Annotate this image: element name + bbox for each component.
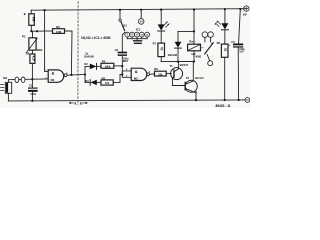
resistor R1 (asterisk value) [24, 10, 36, 31]
relay coil Re1 [188, 40, 202, 62]
svg-text:+: + [229, 43, 231, 47]
svg-text:C2: C2 [115, 48, 119, 52]
LED D4 [214, 9, 228, 30]
junction dot C2/R4 [121, 65, 123, 67]
junction dot N2 node [121, 73, 123, 75]
svg-text:MKT: MKT [123, 60, 129, 63]
capacitor C1 [28, 79, 38, 101]
wire collector line [161, 61, 194, 63]
ground symbol IC1 [134, 41, 142, 44]
node marker b arrow [80, 101, 87, 105]
svg-text:R5: R5 [102, 76, 106, 80]
svg-text:100k: 100k [105, 65, 111, 69]
junction dot S1 rail [119, 9, 121, 11]
capacitor C3 [229, 9, 246, 100]
svg-text:D2: D2 [84, 62, 88, 66]
battery terminal plus [243, 6, 249, 16]
svg-text:M1: M1 [3, 76, 7, 80]
junction dot [30, 30, 32, 32]
svg-text:89420 - 11: 89420 - 11 [216, 104, 231, 108]
wire top supply rail [31, 9, 246, 11]
svg-text:1k: 1k [223, 48, 227, 52]
svg-text:IC1: IC1 [136, 27, 141, 31]
transistor T2 BC141 [185, 62, 204, 101]
svg-text:C3: C3 [231, 40, 235, 44]
svg-text:T1: T1 [170, 64, 174, 68]
wire N1 output [67, 74, 85, 77]
junction dot top rail x44 [44, 9, 46, 11]
diode D2 [84, 62, 101, 69]
cable bead ellipse 2 [21, 77, 25, 82]
node marker a arrow [69, 101, 76, 105]
svg-text:14: 14 [140, 21, 143, 24]
svg-text:N1: N1 [51, 78, 55, 82]
svg-text:P1: P1 [22, 34, 26, 38]
junction dot T1 collector [177, 61, 179, 63]
relay contact arm [201, 43, 214, 66]
svg-text:1N4148: 1N4148 [84, 54, 94, 58]
wire microphone line to N1 input 2 [8, 78, 48, 81]
svg-text:BC141: BC141 [195, 76, 204, 80]
svg-text:400Ω: 400Ω [195, 56, 201, 59]
wire bottom ground rail [8, 100, 245, 101]
svg-text:100n: 100n [30, 92, 36, 96]
svg-text:S1: S1 [123, 24, 127, 28]
junction dot T2 emitter ground [195, 99, 197, 101]
resistor R5 [101, 75, 122, 86]
svg-text:Re1: Re1 [189, 40, 195, 44]
diode D3 [85, 79, 101, 85]
diode D5 flyback 1N4148 [168, 31, 182, 61]
nand gate N1 [45, 70, 68, 82]
junction dot [36, 30, 38, 32]
nand gate N2 [122, 68, 150, 80]
junction dot D4 rail [224, 8, 226, 10]
svg-text:N2: N2 [134, 76, 138, 80]
svg-text:BC547: BC547 [180, 63, 189, 67]
IC1 unused pins row [125, 32, 150, 40]
svg-text:1k: 1k [160, 47, 164, 51]
resistor R3 [26, 50, 37, 80]
svg-text:9V: 9V [243, 12, 248, 16]
svg-text:R3: R3 [26, 52, 30, 56]
svg-text:47k: 47k [105, 81, 110, 85]
svg-text:C1: C1 [29, 83, 33, 87]
preset P1 [22, 31, 43, 52]
junction dot C3 rail [239, 8, 241, 10]
transistor T1 BC547 [170, 62, 189, 86]
junction dot D1 rail [160, 9, 162, 11]
svg-text:*: * [24, 13, 26, 19]
svg-text:b: b [80, 101, 82, 105]
resistor R2 [45, 25, 72, 75]
resistor R6 [150, 67, 172, 76]
wire rail to N1 input 1 [45, 10, 49, 72]
switch S1 [119, 10, 127, 31]
junction dot C1 ground [31, 100, 33, 102]
wire top branch up [85, 66, 90, 74]
svg-text:T2: T2 [186, 76, 190, 80]
junction dot R8 ground [224, 99, 226, 101]
wire relay supply [178, 10, 194, 45]
resistor R8 [217, 30, 228, 100]
svg-text:a: a [74, 101, 76, 105]
resistor R4 [101, 59, 122, 68]
junction dot C3 ground [238, 99, 240, 101]
svg-text:R8: R8 [217, 41, 221, 45]
capacitor C2 [115, 32, 129, 74]
junction dot IC1 rail [140, 9, 142, 11]
junction dot N1 out / R2 [70, 74, 72, 76]
microphone M1 [1, 76, 12, 101]
svg-text:&: & [135, 69, 138, 74]
svg-text:R4: R4 [102, 59, 106, 63]
svg-text:10M: 10M [56, 30, 61, 34]
svg-text:&: & [52, 71, 55, 76]
svg-text:N1,N2 = IC1 = 4093: N1,N2 = IC1 = 4093 [81, 36, 110, 40]
wire bottom branch down [85, 75, 90, 83]
junction dot relay rail [193, 9, 195, 11]
battery terminal minus [245, 98, 250, 103]
svg-text:R7: R7 [153, 42, 157, 46]
IC1 pin 14 [138, 10, 144, 25]
svg-text:10V: 10V [239, 50, 244, 53]
svg-text:1M: 1M [32, 17, 36, 22]
svg-text:1N4148: 1N4148 [168, 53, 178, 57]
svg-text:22k: 22k [158, 72, 163, 76]
resistor R7 [153, 31, 165, 62]
svg-text:R2: R2 [56, 25, 60, 29]
junction dot relay top [193, 30, 195, 32]
cable bead ellipse 1 [15, 77, 19, 82]
junction dot relay node [193, 60, 195, 62]
svg-text:500k: 500k [37, 48, 43, 52]
LED D1 [158, 10, 169, 31]
wire node R1/P1 [31, 30, 44, 32]
relay contact terminals [202, 32, 213, 42]
junction dot branch split [84, 73, 86, 75]
svg-text:R6: R6 [154, 67, 158, 71]
wire dashed board divider a/b [77, 2, 79, 105]
svg-text:47k: 47k [32, 55, 36, 61]
junction dot mic node [31, 78, 33, 80]
svg-text:D3: D3 [85, 79, 89, 83]
